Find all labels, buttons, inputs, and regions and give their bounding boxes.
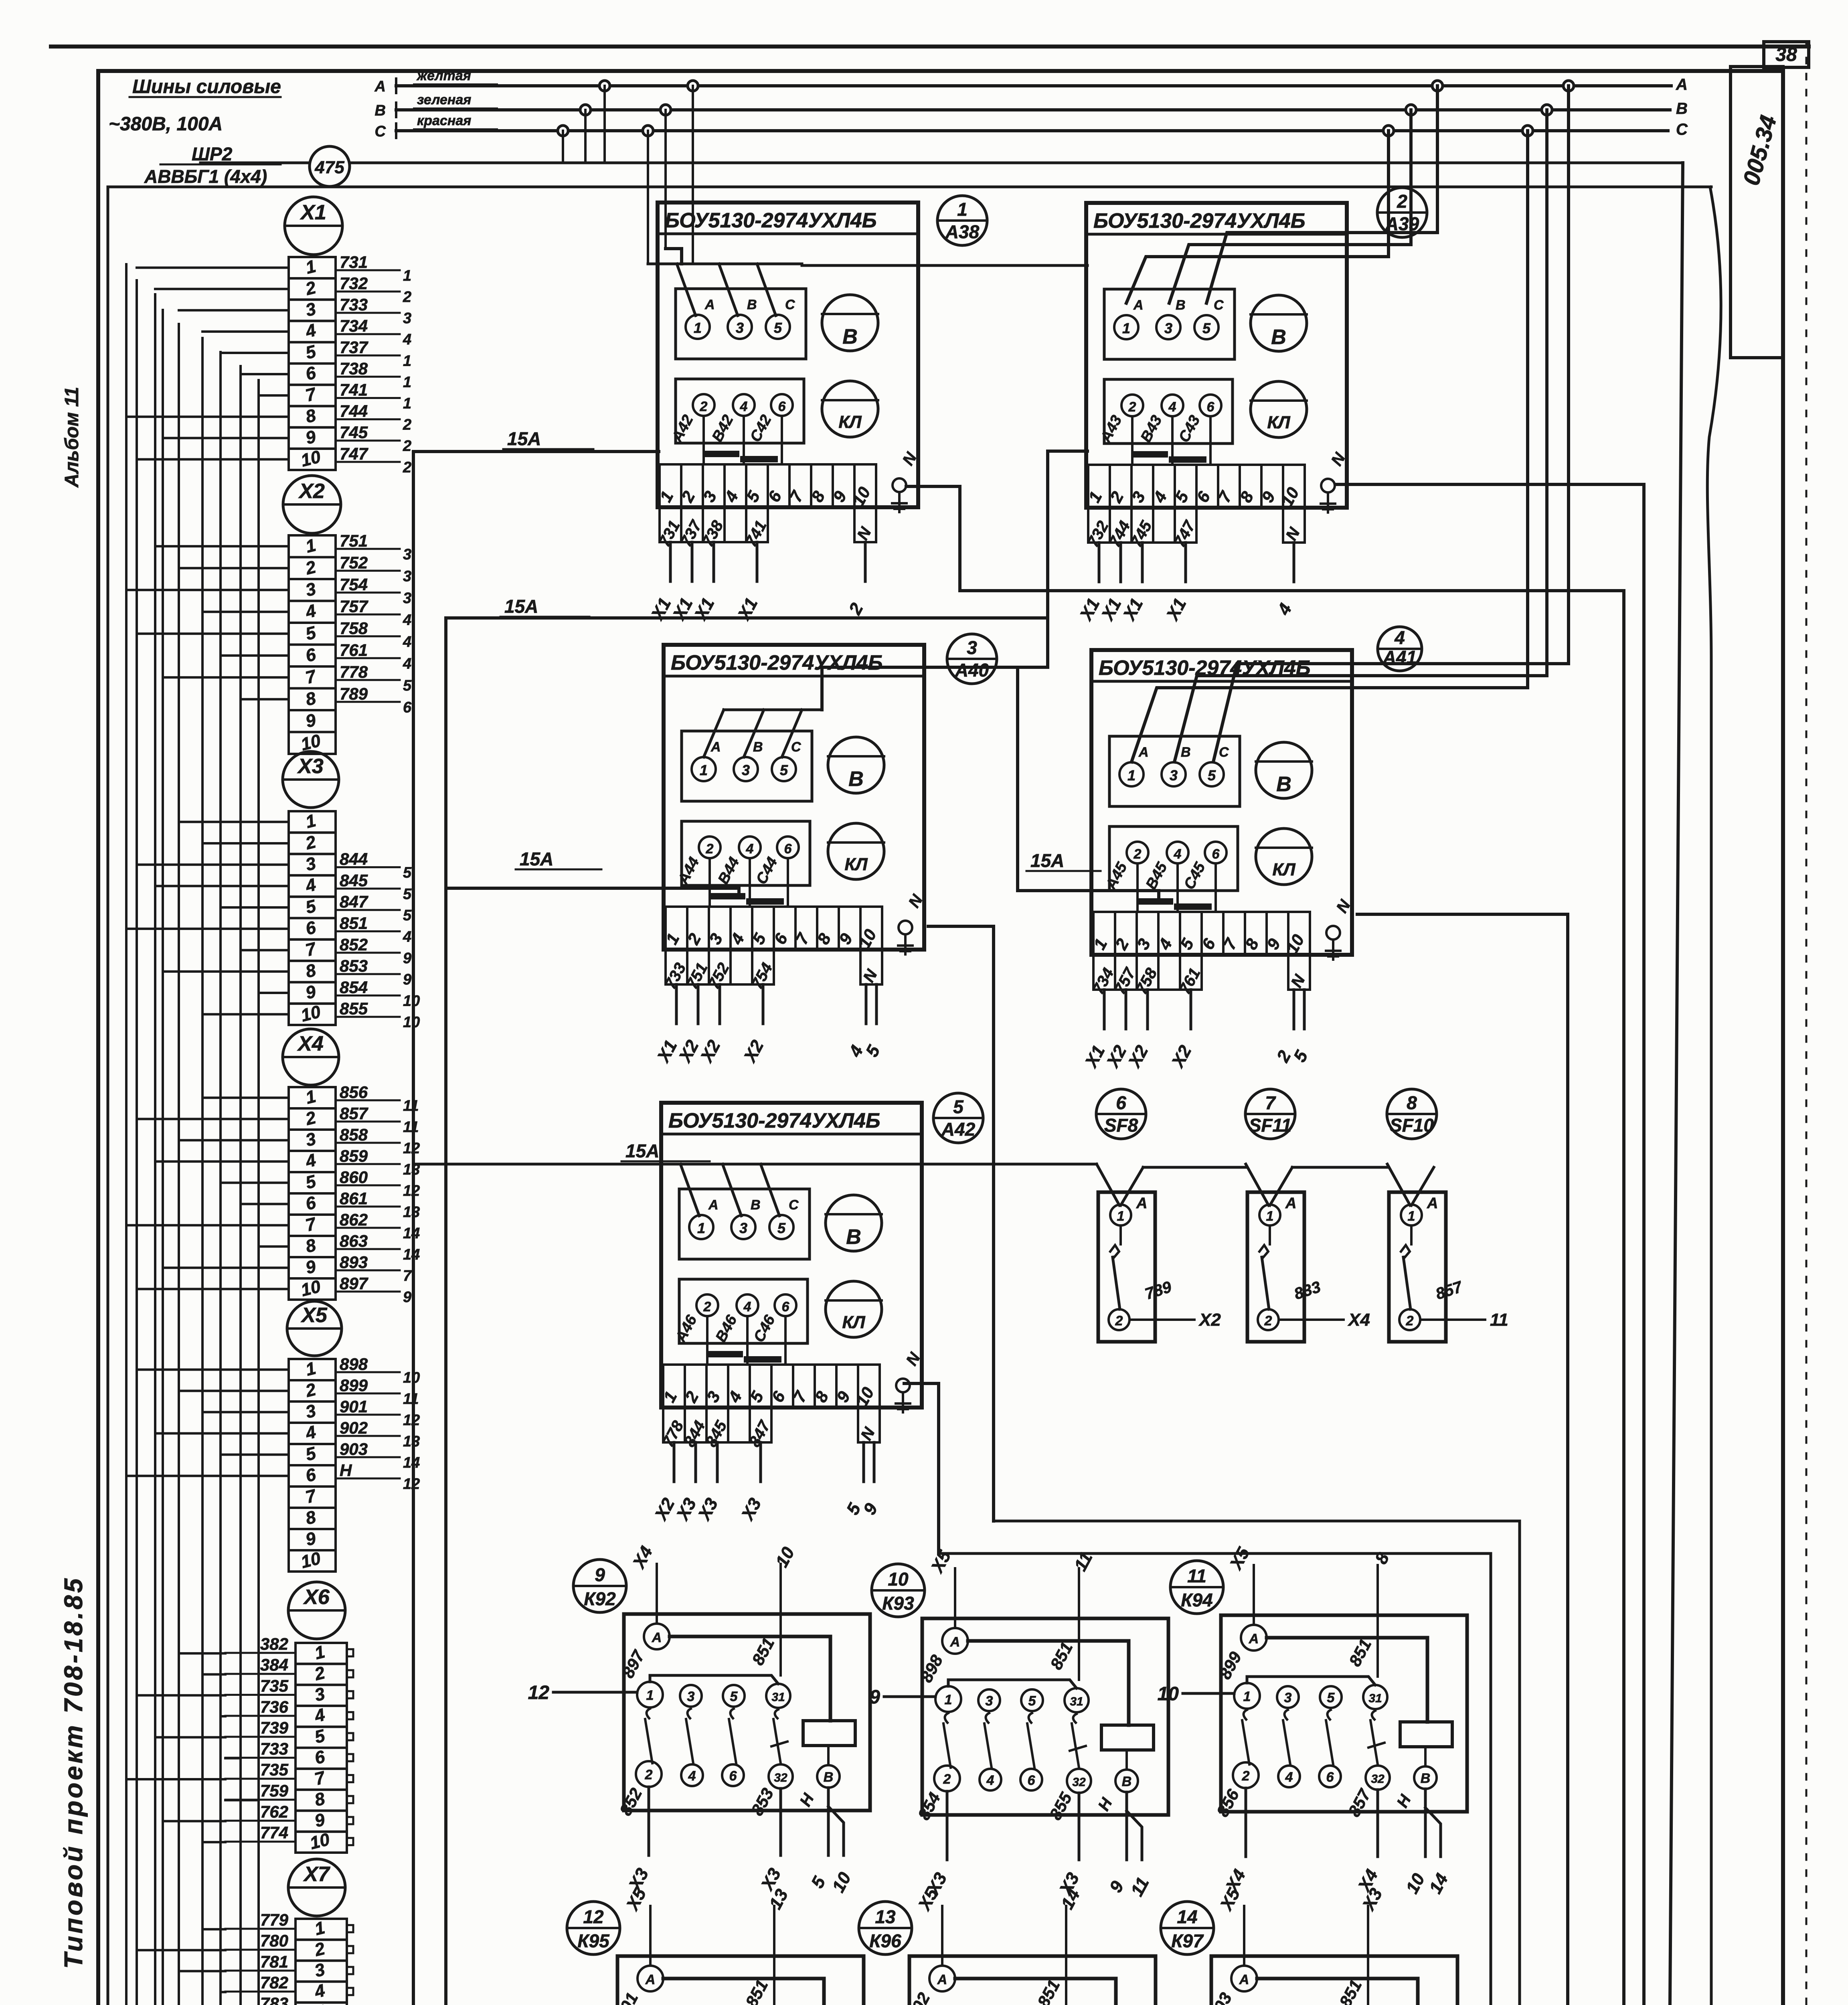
svg-text:К96: К96 [869, 1930, 901, 1951]
svg-text:10: 10 [888, 1569, 909, 1590]
tap wire group3 C [1126, 131, 1389, 303]
cable 475 line [200, 162, 310, 164]
svg-text:32: 32 [774, 1771, 787, 1784]
svg-text:А38: А38 [945, 221, 980, 242]
svg-text:ШР2: ШР2 [192, 144, 233, 164]
svg-text:847: 847 [340, 892, 368, 911]
svg-text:1: 1 [646, 1688, 654, 1703]
relay K92 [573, 1559, 626, 1612]
svg-text:Х6: Х6 [303, 1586, 330, 1609]
svg-text:SF8: SF8 [1104, 1115, 1138, 1136]
svg-text:Шины силовые: Шины силовые [132, 76, 281, 97]
svg-text:В: В [751, 1197, 761, 1213]
svg-text:А40: А40 [955, 660, 989, 680]
svg-text:2: 2 [403, 459, 411, 476]
designator 2/А39 [1377, 188, 1427, 237]
svg-text:желтая: желтая [416, 68, 471, 83]
svg-text:БОУ5130-2974УХЛ4Б: БОУ5130-2974УХЛ4Б [668, 1109, 880, 1132]
feeder 15A to device5/SF [413, 1163, 1097, 1166]
svg-text:857: 857 [340, 1104, 368, 1123]
svg-text:1: 1 [1266, 1209, 1274, 1224]
svg-text:В: В [375, 102, 386, 119]
svg-text:А39: А39 [1385, 213, 1419, 234]
svg-text:12: 12 [403, 1140, 420, 1157]
tap wire group4 B [1174, 110, 1547, 762]
svg-text:761: 761 [340, 640, 368, 659]
svg-text:5: 5 [730, 1689, 738, 1704]
wire dev3 N riser [928, 926, 994, 1521]
svg-text:КЛ: КЛ [838, 412, 862, 432]
svg-text:762: 762 [260, 1802, 288, 1821]
svg-text:10: 10 [403, 1369, 420, 1386]
svg-text:В: В [1676, 100, 1688, 117]
svg-text:2: 2 [1264, 1313, 1272, 1329]
tap wire group3 A [1206, 86, 1437, 303]
svg-text:781: 781 [260, 1952, 288, 1971]
svg-text:38: 38 [1775, 44, 1797, 65]
svg-text:2: 2 [403, 417, 411, 433]
svg-text:~380В, 100А: ~380В, 100А [109, 113, 223, 135]
svg-text:3: 3 [403, 590, 411, 607]
svg-text:6: 6 [1028, 1773, 1036, 1788]
svg-text:4: 4 [403, 612, 411, 628]
svg-text:738: 738 [340, 359, 368, 378]
svg-text:744: 744 [340, 402, 368, 421]
svg-text:12: 12 [403, 1476, 420, 1493]
svg-text:1: 1 [403, 374, 411, 391]
svg-text:1: 1 [1243, 1689, 1251, 1704]
svg-text:901: 901 [340, 1397, 368, 1416]
svg-text:А: А [937, 1972, 947, 1987]
svg-text:А42: А42 [941, 1119, 976, 1140]
svg-text:6: 6 [1116, 1092, 1126, 1113]
svg-text:3: 3 [1284, 1690, 1292, 1705]
switch SF10 [1387, 1089, 1437, 1139]
svg-text:А41: А41 [1382, 647, 1417, 668]
wires to X1 [137, 267, 289, 269]
svg-text:4: 4 [740, 399, 748, 414]
wires to X6 [179, 1652, 225, 1655]
tap wires group2 [647, 131, 649, 264]
svg-text:3: 3 [403, 310, 411, 327]
document number strip 005.34 (right margin) [1731, 67, 1783, 358]
tap wires group1 [562, 131, 564, 163]
relay K95 [567, 1902, 620, 1954]
svg-text:858: 858 [340, 1125, 368, 1144]
svg-text:11: 11 [403, 1119, 419, 1136]
svg-text:4: 4 [1394, 627, 1405, 648]
wires to X3 [179, 821, 289, 823]
tap dots group3 [1383, 126, 1394, 136]
svg-text:10: 10 [403, 1014, 420, 1031]
svg-text:759: 759 [260, 1781, 289, 1800]
wire dev5 N riser [904, 1383, 939, 1553]
svg-text:11: 11 [1187, 1566, 1206, 1586]
svg-text:Х7: Х7 [303, 1863, 330, 1886]
svg-text:КЛ: КЛ [844, 855, 868, 874]
svg-text:К94: К94 [1181, 1590, 1212, 1610]
svg-text:2: 2 [1406, 1313, 1414, 1329]
svg-text:4: 4 [986, 1773, 994, 1788]
svg-text:779: 779 [260, 1910, 289, 1929]
svg-text:11: 11 [403, 1391, 419, 1408]
svg-text:6: 6 [1207, 399, 1215, 415]
svg-text:731: 731 [340, 253, 368, 271]
svg-text:12: 12 [403, 1183, 420, 1199]
wires to X5 [137, 1369, 289, 1371]
svg-text:3: 3 [403, 568, 411, 585]
svg-text:SF10: SF10 [1390, 1115, 1434, 1136]
svg-text:Х3: Х3 [297, 755, 324, 778]
svg-text:4: 4 [1168, 399, 1176, 415]
wires to X7 [202, 1928, 225, 1930]
switch SF8 [1096, 1089, 1146, 1139]
svg-text:860: 860 [340, 1168, 368, 1187]
svg-text:745: 745 [340, 423, 368, 442]
svg-text:15А: 15А [625, 1140, 659, 1161]
svg-text:7: 7 [403, 1268, 412, 1284]
svg-text:2: 2 [645, 1767, 653, 1782]
wire feeder3 to device3 strip [446, 888, 739, 895]
designator 1/А38 [937, 196, 987, 245]
svg-text:БОУ5130-2974УХЛ4Б: БОУ5130-2974УХЛ4Б [671, 651, 883, 674]
bus C (красная) [396, 129, 1668, 132]
terminal block X7 [288, 1859, 345, 1916]
wire feeder2 to device2 [446, 451, 1087, 618]
svg-text:6: 6 [403, 699, 412, 716]
svg-text:754: 754 [340, 575, 368, 594]
wire vertical riser x1112 [444, 620, 447, 2005]
svg-text:6: 6 [782, 1299, 790, 1314]
bus B (зеленая) [396, 108, 1670, 111]
svg-text:862: 862 [340, 1210, 368, 1229]
svg-text:898: 898 [340, 1355, 368, 1373]
svg-text:С: С [791, 739, 801, 755]
svg-text:К97: К97 [1171, 1930, 1204, 1951]
svg-text:2: 2 [1133, 847, 1142, 862]
terminal block X4 [283, 1029, 339, 1085]
svg-text:757: 757 [340, 597, 368, 616]
svg-text:13: 13 [403, 1433, 420, 1450]
wire riser x4190 (cable 475 drop) [1668, 163, 1683, 2005]
svg-text:9: 9 [869, 1687, 880, 1708]
svg-text:382: 382 [260, 1634, 288, 1653]
svg-text:К92: К92 [584, 1588, 616, 1609]
wire feeder left riser 1 [413, 450, 659, 453]
underline [130, 96, 281, 98]
svg-text:758: 758 [340, 619, 368, 638]
svg-text:854: 854 [340, 978, 368, 996]
svg-text:В: В [1276, 773, 1291, 796]
svg-text:861: 861 [340, 1189, 368, 1208]
wire dev1 N to right riser [906, 486, 1624, 2005]
svg-text:31: 31 [1070, 1695, 1083, 1708]
terminal block X2 [283, 476, 341, 533]
svg-text:12: 12 [403, 1412, 420, 1429]
svg-text:БОУ5130-2974УХЛ4Б: БОУ5130-2974УХЛ4Б [1099, 656, 1311, 680]
svg-text:К95: К95 [577, 1930, 610, 1951]
wire feeder4 to device4 strip [1018, 667, 1159, 900]
tap wire group4 A [1213, 86, 1569, 762]
svg-text:856: 856 [340, 1083, 368, 1102]
svg-text:А: А [710, 739, 721, 755]
svg-text:А: А [1239, 1972, 1249, 1987]
svg-text:В: В [846, 1225, 861, 1249]
svg-text:732: 732 [340, 274, 368, 293]
svg-text:А: А [374, 78, 386, 95]
svg-text:14: 14 [1177, 1906, 1197, 1927]
left wire bundle verticals [125, 264, 128, 2005]
svg-text:31: 31 [1368, 1692, 1382, 1705]
svg-text:5: 5 [774, 320, 782, 336]
svg-text:А: А [1427, 1195, 1438, 1212]
svg-text:783: 783 [260, 1994, 288, 2005]
svg-text:В: В [842, 325, 858, 348]
svg-text:А: А [652, 1630, 662, 1645]
svg-text:6: 6 [784, 841, 792, 857]
svg-text:32: 32 [1371, 1772, 1384, 1786]
svg-text:735: 735 [260, 1677, 289, 1695]
relay K94 [1170, 1561, 1223, 1614]
designator 5/А42 [933, 1093, 983, 1143]
svg-text:С: С [789, 1197, 799, 1213]
terminal block X3 [283, 751, 339, 808]
wire vertical riser x1031 [412, 452, 415, 2005]
svg-text:10: 10 [1158, 1683, 1179, 1705]
svg-text:КЛ: КЛ [842, 1312, 865, 1332]
terminal block X1 [285, 197, 342, 255]
svg-text:863: 863 [340, 1231, 368, 1250]
svg-text:4: 4 [403, 929, 411, 946]
svg-text:844: 844 [340, 850, 368, 869]
designator 3/А40 [947, 634, 997, 684]
svg-text:5: 5 [1202, 320, 1211, 336]
wire horizontal y3793 [994, 1520, 1520, 1523]
svg-text:13: 13 [403, 1204, 420, 1221]
circuit breaker unit A41 (device 4) [1091, 650, 1352, 955]
svg-text:1: 1 [1408, 1209, 1415, 1224]
svg-text:4: 4 [746, 841, 754, 857]
svg-text:12: 12 [528, 1682, 550, 1703]
svg-text:3: 3 [1164, 320, 1172, 336]
svg-text:В: В [1421, 1771, 1431, 1786]
svg-text:А: А [704, 297, 715, 312]
svg-text:897: 897 [340, 1274, 368, 1293]
svg-text:741: 741 [340, 381, 368, 399]
bus A (желтая) [396, 84, 1671, 87]
svg-text:красная: красная [417, 113, 471, 128]
svg-text:15А: 15А [1030, 850, 1064, 871]
svg-text:БОУ5130-2974УХЛ4Б: БОУ5130-2974УХЛ4Б [1093, 209, 1306, 233]
svg-text:5: 5 [777, 1220, 786, 1236]
device 1 feed line [648, 263, 802, 265]
svg-text:А: А [1136, 1195, 1147, 1212]
svg-text:737: 737 [340, 338, 368, 356]
svg-text:А: А [1133, 298, 1144, 313]
device 3 feed [822, 667, 1048, 710]
svg-text:778: 778 [340, 662, 368, 681]
relay K96 [859, 1902, 912, 1954]
svg-text:31: 31 [771, 1691, 785, 1704]
svg-text:733: 733 [260, 1739, 288, 1758]
svg-text:2: 2 [1128, 399, 1136, 415]
svg-text:2: 2 [1115, 1313, 1123, 1329]
svg-text:5: 5 [780, 762, 788, 778]
inner wiring box left [107, 187, 109, 2005]
svg-text:АВВБГ1 (4х4): АВВБГ1 (4х4) [144, 166, 267, 187]
svg-text:4: 4 [1285, 1770, 1293, 1785]
svg-text:Х5: Х5 [300, 1304, 328, 1327]
svg-text:2: 2 [700, 399, 708, 414]
svg-text:6: 6 [729, 1768, 737, 1784]
svg-text:32: 32 [1072, 1776, 1086, 1789]
inner wiring box top [108, 186, 1711, 188]
svg-text:В: В [753, 739, 763, 755]
svg-text:А: А [1249, 1631, 1259, 1647]
terminal block X5 [287, 1301, 342, 1356]
svg-text:774: 774 [260, 1823, 288, 1842]
svg-text:5: 5 [403, 886, 412, 903]
tap dots group4 [1522, 126, 1533, 136]
svg-text:Х4: Х4 [297, 1032, 324, 1055]
bus ticks left [395, 79, 397, 93]
svg-text:893: 893 [340, 1253, 368, 1272]
svg-text:В: В [1176, 298, 1186, 313]
svg-text:3: 3 [1170, 767, 1178, 784]
svg-text:845: 845 [340, 871, 368, 890]
svg-text:9: 9 [403, 950, 411, 967]
svg-text:5: 5 [403, 907, 412, 924]
svg-text:5: 5 [403, 865, 412, 881]
svg-text:А: А [1138, 745, 1149, 760]
svg-text:5: 5 [403, 677, 412, 694]
svg-text:3: 3 [742, 762, 750, 778]
svg-text:2: 2 [1242, 1768, 1250, 1784]
svg-text:15А: 15А [520, 849, 553, 869]
svg-text:А: А [645, 1972, 656, 1987]
svg-text:1: 1 [403, 395, 411, 412]
svg-text:14: 14 [403, 1246, 420, 1263]
svg-text:899: 899 [340, 1376, 368, 1395]
svg-text:А: А [1676, 76, 1688, 93]
svg-text:А: А [1285, 1195, 1296, 1212]
svg-text:С: С [1214, 298, 1224, 313]
svg-text:384: 384 [260, 1655, 288, 1674]
svg-text:9: 9 [595, 1564, 605, 1585]
wires to X2 [155, 545, 289, 547]
svg-text:Х2: Х2 [1198, 1310, 1221, 1330]
tap dots group2 [643, 126, 653, 136]
svg-text:736: 736 [260, 1697, 289, 1716]
circuit breaker unit A39 (device 2) [1086, 203, 1347, 508]
svg-text:15А: 15А [504, 596, 538, 617]
svg-text:В: В [1122, 1774, 1132, 1789]
relay K93 [872, 1564, 925, 1617]
svg-text:6: 6 [1326, 1770, 1334, 1785]
svg-text:5: 5 [1208, 767, 1216, 784]
underline ШР2 [160, 164, 281, 166]
svg-text:12: 12 [583, 1906, 604, 1927]
svg-text:1: 1 [697, 1220, 705, 1236]
circuit breaker unit A40 (device 3) [664, 645, 924, 950]
svg-text:855: 855 [340, 999, 368, 1018]
svg-text:2: 2 [943, 1772, 951, 1787]
svg-text:К93: К93 [882, 1593, 914, 1614]
svg-text:1: 1 [945, 1692, 952, 1707]
svg-text:SF11: SF11 [1249, 1115, 1292, 1136]
svg-text:4: 4 [743, 1299, 751, 1314]
svg-text:зеленая: зеленая [417, 92, 471, 107]
inner wiring box right [1707, 187, 1721, 2005]
svg-text:780: 780 [260, 1931, 288, 1950]
svg-text:734: 734 [340, 316, 368, 335]
svg-text:3: 3 [736, 320, 744, 336]
svg-text:2: 2 [403, 438, 411, 455]
tap dots group1 [558, 126, 568, 136]
svg-text:В: В [1181, 745, 1191, 760]
svg-text:1: 1 [1117, 1209, 1125, 1224]
svg-text:В: В [1271, 326, 1286, 349]
svg-text:852: 852 [340, 935, 368, 954]
svg-text:С: С [785, 297, 795, 312]
svg-text:782: 782 [260, 1973, 288, 1992]
svg-text:3: 3 [967, 637, 977, 658]
svg-text:8: 8 [1407, 1092, 1417, 1113]
svg-text:1: 1 [403, 352, 411, 369]
svg-text:В: В [848, 768, 864, 791]
svg-text:2: 2 [706, 841, 714, 857]
svg-text:14: 14 [403, 1454, 420, 1471]
svg-text:4: 4 [688, 1768, 696, 1784]
svg-text:859: 859 [340, 1146, 368, 1165]
svg-text:10: 10 [403, 992, 420, 1009]
svg-text:1: 1 [1122, 320, 1130, 336]
wire dev2 N to right riser [1335, 484, 1644, 2005]
svg-text:11: 11 [403, 1098, 419, 1114]
sheet top border [51, 45, 1809, 49]
svg-text:Х1: Х1 [300, 201, 326, 224]
svg-text:475: 475 [314, 158, 344, 177]
svg-text:В: В [747, 297, 757, 312]
relay K97 [1161, 1902, 1214, 1954]
svg-text:903: 903 [340, 1440, 368, 1458]
terminal block X6 [288, 1582, 345, 1639]
wire horizontal y3874 [939, 1552, 1491, 1555]
svg-text:733: 733 [340, 295, 368, 314]
svg-text:752: 752 [340, 553, 368, 572]
svg-text:11: 11 [1490, 1310, 1508, 1330]
svg-text:В: В [824, 1770, 834, 1785]
svg-text:А: А [708, 1197, 719, 1213]
svg-text:5: 5 [1028, 1693, 1036, 1709]
sheet right edge [1805, 42, 1808, 2005]
svg-text:751: 751 [340, 531, 368, 550]
svg-text:747: 747 [340, 444, 368, 463]
svg-text:БОУ5130-2974УХЛ4Б: БОУ5130-2974УХЛ4Б [665, 209, 877, 232]
page number box 38 (top right) [1764, 42, 1809, 67]
svg-text:4: 4 [403, 655, 411, 672]
svg-text:4: 4 [403, 634, 411, 650]
circuit breaker unit A42 (device 5) [661, 1103, 922, 1408]
svg-text:4: 4 [403, 331, 411, 348]
svg-text:3: 3 [687, 1689, 695, 1704]
svg-text:851: 851 [340, 914, 368, 933]
svg-text:5: 5 [1327, 1690, 1335, 1705]
svg-text:А: А [950, 1634, 960, 1650]
svg-text:С: С [1219, 745, 1229, 760]
svg-text:9: 9 [403, 1289, 411, 1306]
underline АВВБГ1 [142, 186, 281, 188]
